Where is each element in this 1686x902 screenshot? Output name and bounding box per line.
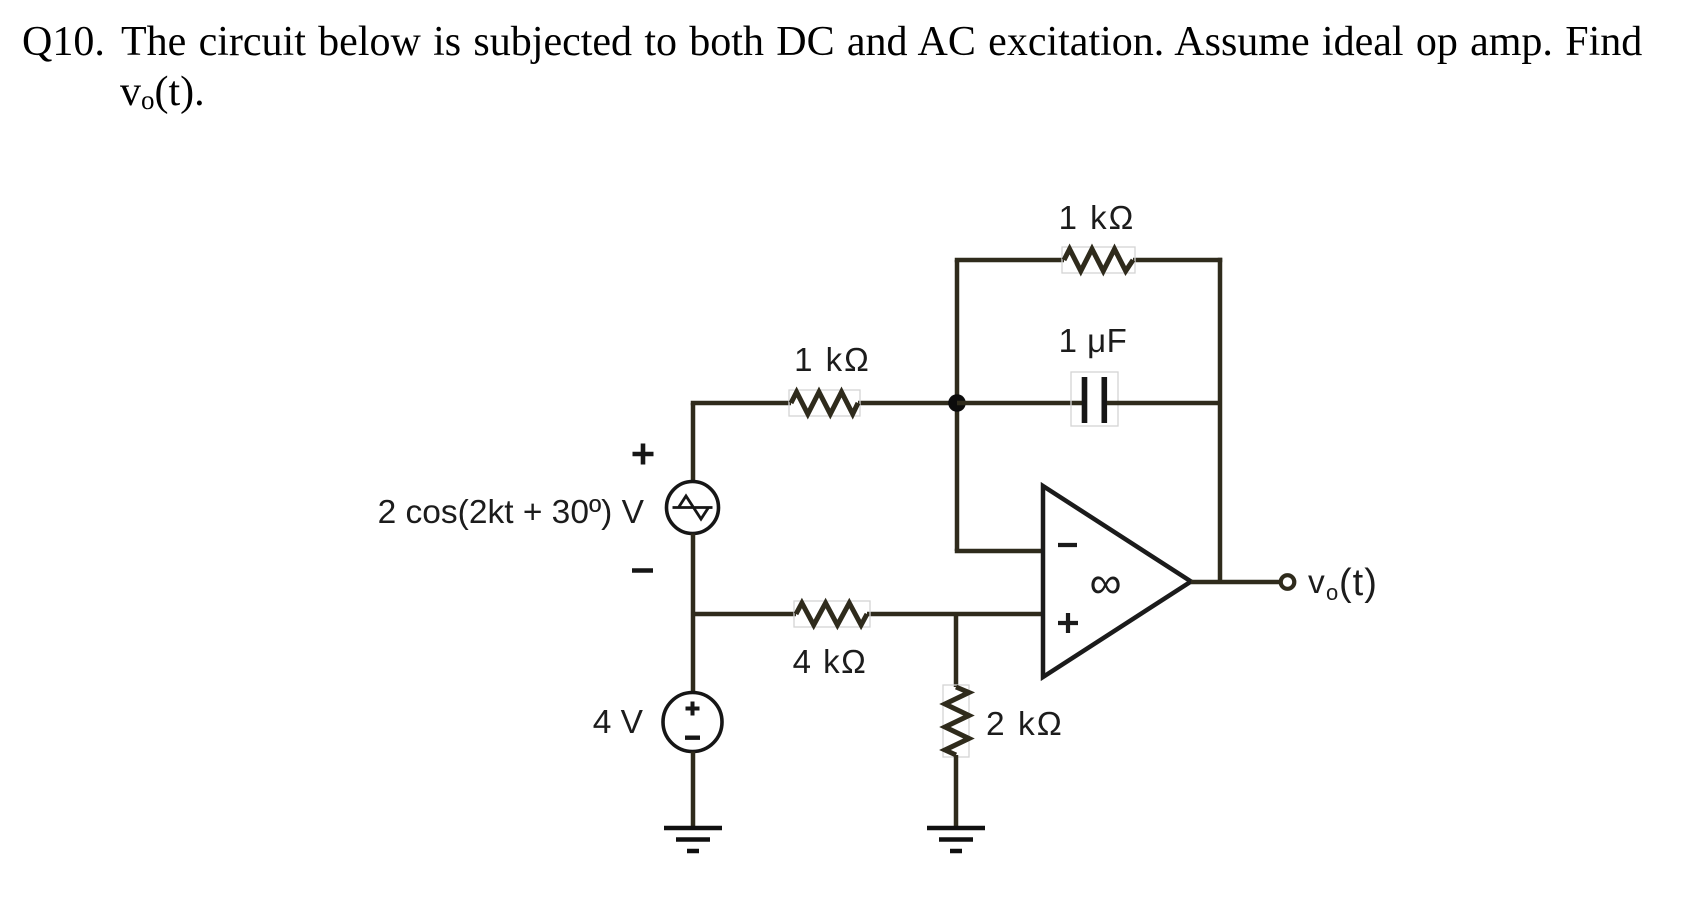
DC source 4V circle xyxy=(663,693,722,752)
wire: capacitor branch right (1107,403)-(1220,403) xyxy=(1107,401,1220,406)
output terminal circle xyxy=(1281,575,1295,589)
AC source sine symbol xyxy=(673,496,713,519)
svg-text:v: v xyxy=(1308,564,1325,601)
wire: lower horizontal to op-amp + (693,614)-(1043,614) xyxy=(693,612,1043,617)
svg-text:1 μF: 1 μF xyxy=(1059,322,1128,359)
capacitor 1uF box xyxy=(1071,372,1118,426)
wire: source top vertical (693,403)-(693,480) xyxy=(691,403,696,481)
resistor 2k box xyxy=(943,685,969,757)
wire: inverting input horizontal (957,551)-(1043,551) xyxy=(955,549,1043,554)
capacitor 1uF plates xyxy=(1085,377,1105,423)
label - (AC source polarity) xyxy=(632,568,653,573)
wire: feedback right vertical (1220,260)-(1220,582) xyxy=(1218,258,1223,582)
title line 1 xyxy=(22,18,105,66)
wire: capacitor branch left (957,403)-(1082,403) xyxy=(957,401,1082,406)
DC source - symbol xyxy=(685,736,700,740)
svg-text:1 kΩ: 1 kΩ xyxy=(1059,199,1136,236)
svg-text:(t): (t) xyxy=(1339,562,1378,604)
node A junction dot xyxy=(948,394,966,412)
resistor 4k zigzag xyxy=(796,603,867,625)
resistor 2k zigzag xyxy=(945,687,969,755)
DC source + symbol xyxy=(686,702,700,716)
resistor feedback 1k zigzag xyxy=(1064,249,1133,271)
ground (left) xyxy=(664,828,722,851)
title line 2 xyxy=(120,68,205,116)
op-amp U1 triangle xyxy=(1043,486,1191,677)
svg-text:2 kΩ: 2 kΩ xyxy=(986,706,1064,743)
wire: AC source bottom to 4V source (693,534)-(693,692) xyxy=(691,534,696,694)
wire: output (1191,582)-(1281,582) xyxy=(1191,580,1280,585)
wire: top input horizontal (693,403)-(957,403) xyxy=(691,401,957,406)
op-amp + input sign xyxy=(1058,613,1078,633)
resistor R-in 1k box xyxy=(789,390,860,416)
wire: inverting node vertical (957,260)-(957,551) xyxy=(955,260,960,551)
svg-text:o: o xyxy=(1326,580,1338,605)
wire: 2k to ground (956,755)-(956,828) xyxy=(954,755,959,828)
svg-text:1 kΩ: 1 kΩ xyxy=(794,341,871,378)
wire: 4V source to ground (693,752)-(693,828) xyxy=(691,752,696,829)
resistor 4k box xyxy=(794,601,870,627)
resistor feedback 1k box xyxy=(1062,247,1135,273)
op-amp - input sign xyxy=(1058,543,1077,547)
label + (AC source polarity) xyxy=(633,444,654,465)
svg-text:4 V: 4 V xyxy=(593,704,644,741)
wire: 2k branch vertical top (956,614)-(956,687) xyxy=(954,614,959,687)
ground (right) xyxy=(927,828,985,851)
svg-text:2 cos(2kt + 30º) V: 2 cos(2kt + 30º) V xyxy=(378,494,645,531)
resistor R-in 1k zigzag xyxy=(791,392,858,414)
svg-text:4 kΩ: 4 kΩ xyxy=(793,643,868,680)
AC source circle xyxy=(667,482,719,534)
svg-text:∞: ∞ xyxy=(1089,557,1121,608)
wire: top feedback horizontal (957,260)-(1220,260) xyxy=(955,258,1223,263)
